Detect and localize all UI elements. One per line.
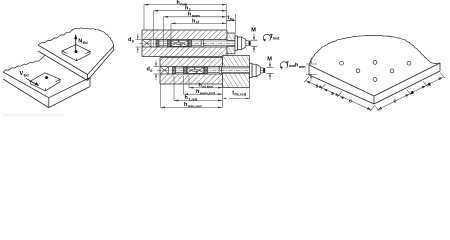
front plate anchor dot [45, 76, 48, 79]
surface extension line [226, 5, 228, 30]
svg-text:min: min [299, 65, 306, 69]
svg-text:1,red: 1,red [188, 97, 198, 101]
bottom bolt protruding tip [260, 67, 263, 69]
top block concrete hatch upper [142, 30, 227, 40]
svg-text:d: d [128, 37, 131, 43]
right slab left corner vertical [308, 65, 310, 75]
svg-text:c: c [394, 99, 397, 105]
upper plate anchor dot [75, 50, 78, 53]
top hole void cross [142, 40, 151, 47]
svg-text:s: s [316, 84, 319, 90]
right slab front-left top edge [309, 65, 374, 96]
bottom anchor expansion clip section [187, 67, 205, 73]
bottom washer [250, 63, 253, 77]
top anchor ring 3 [189, 40, 192, 47]
dim h_1_red line [174, 100, 223, 102]
front slab front-right bottom edge [49, 87, 90, 108]
top drill hole walls [142, 39, 227, 41]
upper slab front-left top edge [38, 45, 88, 75]
top anchor rod to surface [192, 40, 246, 42]
bottom thick fixture hatched [223, 56, 250, 67]
dim h_nom_red line [184, 93, 223, 95]
spacing dim line left side [304, 77, 374, 112]
svg-text:inst: inst [273, 37, 280, 41]
t_fix dim [227, 20, 236, 22]
right slab right corner vertical [439, 63, 441, 71]
svg-text:h: h [185, 5, 188, 11]
svg-text:d: d [147, 66, 150, 72]
svg-text:min,red: min,red [188, 104, 202, 108]
svg-text:h: h [184, 102, 187, 108]
bottom drill hole walls [160, 66, 223, 68]
upper anchor plate [62, 45, 90, 61]
svg-text:s: s [411, 90, 414, 96]
dim h_min line [144, 4, 227, 6]
svg-text:h: h [295, 63, 298, 69]
svg-text:0: 0 [132, 40, 134, 44]
bottom hole void cross [160, 67, 168, 74]
dim h_nom line [164, 16, 227, 18]
bottom hex nut [252, 64, 260, 76]
svg-text:h: h [196, 89, 199, 95]
upper slab front-right top edge [88, 46, 114, 75]
top block outline [142, 30, 227, 57]
upper slab front-left bottom edge [38, 51, 88, 81]
spacing dim arrows right [378, 77, 443, 109]
svg-text:nom,red: nom,red [200, 91, 216, 95]
N_Ed load arrow [75, 39, 77, 52]
bottom anchor sleeve end mark [219, 67, 221, 74]
right slab top face wavy torn edge [309, 35, 440, 65]
bottom block concrete hatch lower [160, 74, 223, 84]
top anchor expansion clip section [171, 40, 189, 46]
top fixture plate hatched [227, 33, 235, 41]
T_inst torque symbol top [263, 34, 270, 41]
svg-text:fix,red: fix,red [234, 92, 246, 97]
upper slab front corner vertical [87, 75, 89, 81]
svg-text:s: s [428, 82, 431, 88]
svg-text:M: M [251, 28, 256, 34]
t_fix_red dim [229, 98, 250, 100]
svg-text:h: h [192, 18, 195, 24]
svg-text:0: 0 [150, 69, 152, 73]
top anchor rod segment [159, 40, 168, 42]
front slab front-left top edge [3, 72, 49, 98]
dim h_1 line [154, 10, 227, 12]
svg-text:Ed: Ed [24, 72, 30, 77]
right slab front-left bottom edge [309, 75, 374, 104]
dim h_ef_red line [189, 87, 223, 89]
front slab right end vertical [89, 78, 91, 87]
bottom anchor rod segment [176, 67, 184, 69]
front slab front-right top edge [49, 78, 90, 98]
front slab front-left bottom edge [3, 79, 49, 108]
svg-text:h: h [185, 95, 188, 101]
dim h_min_red line [161, 106, 223, 108]
svg-text:ef: ef [196, 21, 200, 25]
svg-text:Ed: Ed [83, 40, 89, 45]
right slab front-right top edge [374, 63, 440, 96]
right slab front-right bottom edge [374, 71, 440, 104]
bottom anchor ring 3 [205, 67, 208, 74]
svg-text:h: h [188, 12, 191, 18]
top bolt protruding tip [246, 40, 249, 42]
svg-text:s: s [331, 91, 334, 97]
top anchor bolt tip ring [156, 40, 159, 47]
front slab front corner vertical [48, 98, 50, 108]
bottom block outline [160, 58, 223, 85]
bottom anchor ring 2 [184, 67, 187, 74]
bottom anchor rod to fixture [208, 67, 261, 69]
V_Ed load arrow [26, 78, 36, 84]
d0 dim bottom [154, 61, 160, 81]
top block concrete hatch lower [142, 47, 227, 57]
svg-text:h: h [177, 0, 180, 6]
spacing dim arrows left [306, 81, 371, 110]
svg-text:c: c [349, 99, 352, 105]
d0 dim top [136, 34, 142, 54]
upper slab top face wavy torn edge [38, 28, 114, 46]
top anchor sleeve end mark [201, 40, 203, 47]
upper slab right corner vertical [113, 46, 115, 50]
dim arrowheads bottom [161, 87, 250, 109]
upper slab front-right bottom edge [88, 50, 114, 81]
right slab front corner vertical [373, 96, 375, 104]
svg-text:ef,red: ef,red [202, 85, 213, 89]
bottom anchor bolt tip ring [173, 67, 176, 74]
bottom anchor centerline [157, 69, 266, 71]
top hex nut [238, 37, 246, 49]
anchor holes on slab [340, 61, 411, 82]
svg-text:h: h [199, 83, 202, 89]
top washer [235, 36, 238, 50]
spacing dim line right side [375, 73, 446, 112]
surface extension below [222, 84, 224, 107]
T_inst torque symbol bottom [280, 62, 287, 69]
front slab top face wavy torn edge [3, 55, 45, 72]
top anchor centerline [139, 42, 251, 44]
top anchor ring 2 [168, 40, 171, 47]
front anchor plate [30, 73, 60, 91]
bottom block concrete hatch upper [160, 58, 223, 67]
dim arrowheads top [144, 4, 235, 25]
svg-text:nom: nom [192, 14, 201, 18]
dim h_ef line [171, 22, 227, 24]
